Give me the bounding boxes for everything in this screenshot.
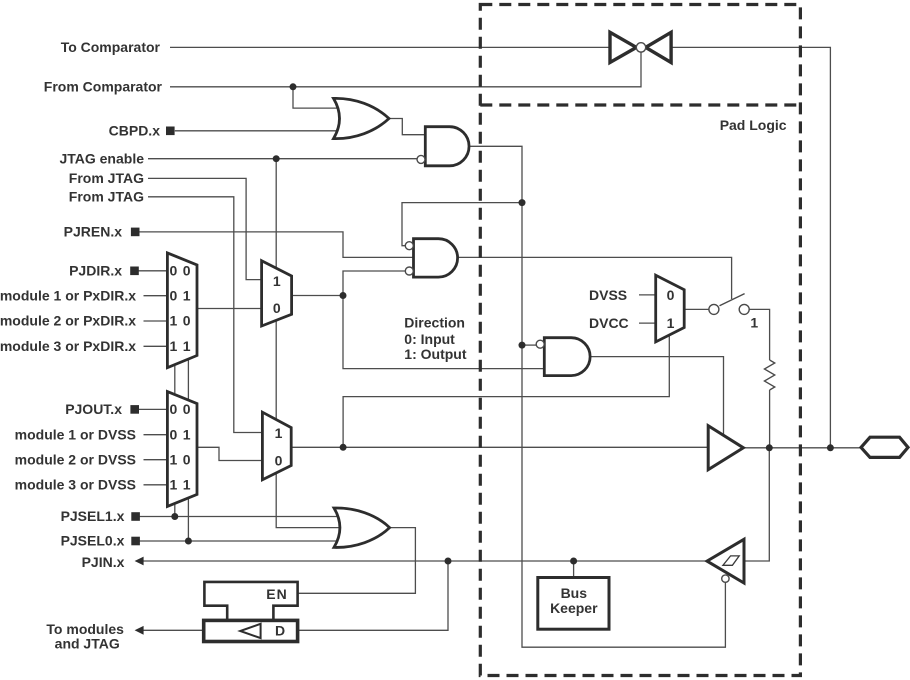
svg-text:1 0: 1 0 [170,451,192,467]
wire AND1 output vertical [470,146,725,647]
junction bus keeper [570,558,577,565]
svg-text:PJSEL0.x: PJSEL0.x [61,533,125,549]
wire switch to resistor [749,309,769,360]
mux M2 DIR 2to1 [262,261,292,326]
svg-text:1: 1 [273,273,281,289]
transmission gate circle [636,43,645,52]
junction pad resistor [766,444,773,451]
svg-text:DVCC: DVCC [589,315,629,331]
svg-text:PJDIR.x: PJDIR.x [69,262,122,278]
wire PJSEL0 net [139,540,345,542]
wire OUT mux4 output jog [197,447,264,460]
junction From Comparator [290,83,297,90]
wire module2 DVSS stub [144,459,168,461]
svg-text:1: 1 [275,425,283,441]
arrow PJIN.x [135,557,144,566]
wire mux M1 output to M2 [197,308,263,310]
svg-text:0: 0 [275,453,283,469]
mux M1 PJDIR 4to1 [167,253,197,368]
latch EN box [204,582,297,620]
bubble U4 top input [536,340,544,348]
junction PJSEL0 [185,538,192,545]
mux M3 PJOUT 4to1 [167,392,197,507]
wire PJSEL1 net [139,516,345,518]
wire From JTAG upper [148,178,263,279]
wire JTAG enable vertical to OR2 [276,159,345,528]
wire pull select net [343,335,669,448]
latch clock triangle [240,624,260,638]
wire module1 PxDIR stub [144,295,168,297]
wire PJIN to D latch [298,561,448,630]
wire NAND2 output to switch [459,257,732,299]
junction direction net [340,292,347,299]
wire PJSEL1 select vertical [174,365,176,517]
wire From JTAG lower [148,197,264,433]
terminal square PJSEL1.x [131,512,140,521]
svg-text:0: 0 [667,287,675,303]
svg-text:JTAG enable: JTAG enable [59,151,144,167]
junction PJIN D latch [445,558,452,565]
svg-text:and JTAG: and JTAG [55,636,120,652]
wire JTAG enable net [148,158,417,160]
buffer U6 output driver [708,426,743,470]
svg-text:0 0: 0 0 [170,262,192,278]
svg-text:From JTAG: From JTAG [69,189,144,205]
svg-text:PJIN.x: PJIN.x [82,554,125,570]
wire transmission gate to pad column [671,47,830,447]
wire buffer to pad [743,447,861,449]
wire DVCC stub [639,322,656,324]
wire To modules line [143,629,204,631]
svg-text:D: D [275,623,285,639]
mux M5 DVSS DVCC [656,275,685,342]
wire mux3 output to switch [684,308,709,310]
switch contact left [709,304,719,314]
arrow To modules [135,626,144,635]
bubble U7 enable [722,575,729,582]
svg-text:0 1: 0 1 [170,287,192,303]
wire From Comparator branch to OR1 [293,87,342,108]
wire AND2 output to buffer enable [590,357,723,436]
wire PJREN.x to NAND2 [140,232,414,258]
svg-text:CBPD.x: CBPD.x [109,123,161,139]
or-gate U5 PJSEL [334,508,390,547]
Bus Keeper box [538,578,609,630]
svg-text:0 1: 0 1 [170,426,192,442]
wire PJDIR stub [139,270,168,272]
junction out data select [340,444,347,451]
wire CBPD.x to OR1 [175,130,342,132]
svg-text:To Comparator: To Comparator [61,39,161,55]
svg-text:From JTAG: From JTAG [69,170,144,186]
wire From Comparator net [170,52,641,87]
wire DVSS stub [639,294,656,296]
svg-text:1 1: 1 1 [170,338,192,354]
switch lever [720,294,745,306]
svg-text:PJOUT.x: PJOUT.x [65,401,122,417]
svg-text:module 1 or DVSS: module 1 or DVSS [15,426,136,442]
wire module3 PxDIR stub [144,345,168,347]
wire pad column to schmitt input [744,448,769,561]
svg-text:module 3 or PxDIR.x: module 3 or PxDIR.x [0,338,136,354]
terminal square PJREN.x [131,228,140,237]
wire To Comparator net [170,46,610,48]
svg-text:1 1: 1 1 [170,476,192,492]
svg-text:From Comparator: From Comparator [44,79,163,95]
wire NAND2 bottom bubble feed [343,271,406,296]
wire OR2 output to EN [298,528,416,594]
wire OR1 output to AND1 [389,119,425,135]
mux M4 OUT 2to1 [262,412,291,480]
svg-text:Pad Logic: Pad Logic [720,117,787,133]
terminal square PJDIR.x [130,267,139,276]
and-gate U3 pull enable [414,239,458,277]
wire DIR mux2 output [292,295,343,297]
svg-text:0 0: 0 0 [170,401,192,417]
wire PJOUT stub [139,408,167,410]
svg-text:PJSEL1.x: PJSEL1.x [61,508,125,524]
wire PJIN net [143,560,707,562]
wire output data line to buffer [291,446,708,448]
switch contact right [739,304,749,314]
wire branch to AND2 bubble [522,344,536,346]
schmitt buffer U7 input [707,539,744,583]
wire PJSEL0 select vertical [187,359,189,541]
svg-text:0: 0 [273,300,281,316]
svg-text:Keeper: Keeper [550,600,598,616]
svg-text:1: Output: 1: Output [404,346,467,362]
terminal square CBPD.x [166,127,175,136]
bubble U3 bottom input [405,267,413,275]
wire resistor to pad line [769,390,771,448]
wire direction to AND2 input [343,296,544,369]
svg-text:EN: EN [266,586,287,602]
svg-text:PJREN.x: PJREN.x [64,224,123,240]
svg-text:1: 1 [667,315,675,331]
svg-text:0: Input: 0: Input [404,331,455,347]
wire bus keeper tap [573,561,575,578]
schmitt hysteresis symbol [723,556,739,565]
latch D box [204,620,298,641]
svg-text:Bus: Bus [561,585,588,601]
bubble U2 input [417,155,425,163]
svg-text:Direction: Direction [404,314,465,330]
junction pad comparator [827,444,834,451]
transmission gate left triangle [610,32,636,62]
svg-text:1: 1 [750,314,758,330]
dashed box Pad Logic outer [480,5,800,676]
and-gate U4 direction [544,338,590,376]
wire module2 PxDIR stub [144,320,168,322]
junction PJSEL1 [171,513,178,520]
dashed divider line [480,103,800,106]
resistor R1 pullup [764,360,774,390]
svg-text:module 3 or DVSS: module 3 or DVSS [15,476,136,492]
terminal square PJOUT.x [130,405,139,414]
svg-text:module 2 or DVSS: module 2 or DVSS [15,451,136,467]
wire AND1 out branch to NAND2 top [402,203,522,246]
transmission gate right triangle [646,32,672,62]
svg-text:module 2 or PxDIR.x: module 2 or PxDIR.x [0,313,136,329]
wire module3 DVSS stub [144,484,168,486]
junction AND1 out [519,199,526,206]
pad hexagon [861,437,908,457]
svg-text:module 1 or PxDIR.x: module 1 or PxDIR.x [0,287,136,303]
or-gate U1 CBPD [334,98,390,138]
svg-text:DVSS: DVSS [589,287,627,303]
junction JTAG enable [273,155,280,162]
terminal square PJSEL0.x [131,537,140,546]
bubble U3 top input [405,242,413,250]
and-gate U2 with inverted input [425,127,469,166]
wire module1 DVSS stub [144,434,168,436]
svg-text:1 0: 1 0 [170,313,192,329]
junction AND2 feed [519,342,526,349]
